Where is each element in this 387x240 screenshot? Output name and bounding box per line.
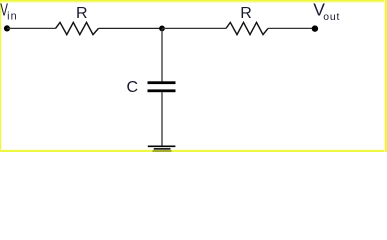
node Vout terminal <box>312 25 318 31</box>
resistor R1 <box>56 22 99 34</box>
decorative yellow page border (left edge) <box>0 0 387 152</box>
svg-text:R: R <box>76 5 88 22</box>
svg-text:out: out <box>323 12 340 23</box>
node A junction <box>159 26 165 32</box>
wire node A to capacitor C1 <box>161 28 163 81</box>
svg-text:C: C <box>127 79 139 96</box>
capacitor C1 <box>148 81 176 92</box>
label Vin <box>0 1 17 22</box>
wire R2 to Vout <box>268 27 315 29</box>
value label C <box>127 79 139 96</box>
resistor R2 <box>226 22 268 34</box>
wire node A to R2 <box>162 27 226 29</box>
ground <box>148 146 176 151</box>
wire R1 to node A <box>99 27 163 29</box>
label Vout <box>313 0 340 23</box>
value label R (left resistor) <box>76 5 88 22</box>
value label R (right resistor) <box>240 5 252 22</box>
svg-text:in: in <box>7 11 18 23</box>
decorative yellow page border (top, right, bottom) <box>0 0 387 152</box>
node Vin terminal <box>4 25 10 31</box>
wire capacitor C1 to ground <box>161 92 163 146</box>
svg-text:R: R <box>240 5 252 22</box>
wire Vin to R1 <box>7 27 56 29</box>
